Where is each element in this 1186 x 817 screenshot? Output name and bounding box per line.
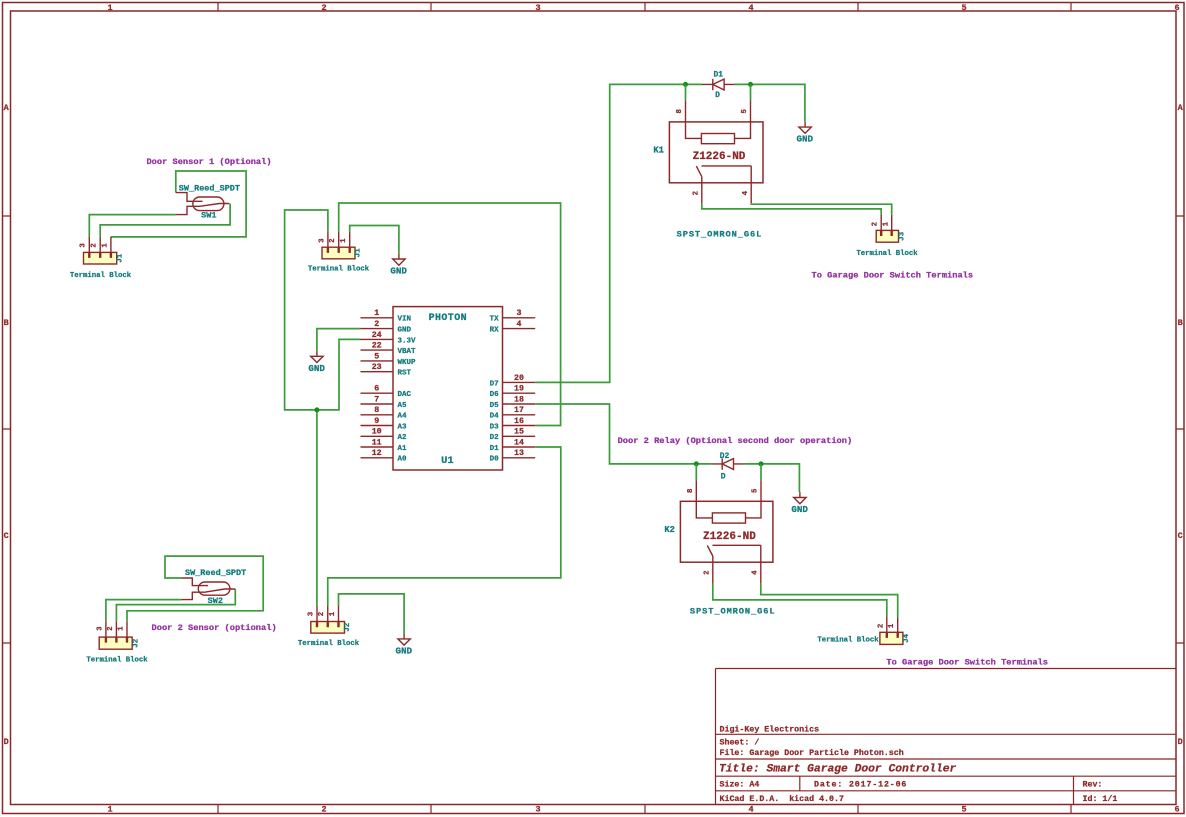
svg-text:9: 9 (374, 417, 379, 426)
svg-text:1: 1 (329, 611, 337, 616)
svg-text:D0: D0 (490, 456, 500, 464)
svg-text:23: 23 (372, 363, 382, 372)
terminal block J4 body (880, 617, 903, 644)
svg-text:1: 1 (882, 221, 890, 226)
U1 pin 23 (RST) (361, 363, 412, 378)
svg-text:3: 3 (535, 3, 540, 13)
svg-text:Date: 2017-12-06: Date: 2017-12-06 (814, 780, 907, 789)
svg-text:1: 1 (107, 805, 112, 815)
svg-text:2: 2 (872, 222, 880, 226)
svg-text:K1: K1 (653, 145, 664, 155)
svg-text:A: A (4, 103, 10, 113)
svg-text:Terminal Block: Terminal Block (817, 637, 879, 645)
svg-text:12: 12 (372, 449, 382, 458)
svg-text:4: 4 (517, 320, 522, 329)
title block outline (716, 669, 1177, 805)
svg-text:7: 7 (374, 395, 379, 404)
svg-text:SW_Reed_SPDT: SW_Reed_SPDT (185, 568, 246, 578)
wire: K2 coil rail segments (696, 464, 799, 492)
svg-text:File: Garage Door Particle Pho: File: Garage Door Particle Photon.sch (720, 748, 904, 758)
svg-text:Door 2 Sensor (optional): Door 2 Sensor (optional) (152, 623, 277, 633)
microcontroller U1 body (393, 307, 503, 470)
svg-text:Sheet: /: Sheet: / (720, 737, 760, 747)
svg-text:TX: TX (490, 316, 500, 324)
U1 pin 19 (D6) (490, 385, 536, 400)
svg-text:A5: A5 (398, 402, 408, 410)
U1 pin 22 (VBAT) (361, 342, 417, 357)
svg-text:J3: J3 (898, 231, 906, 241)
svg-text:D: D (721, 472, 726, 481)
svg-text:D2: D2 (490, 434, 500, 442)
wire: K1 pin5 drop (750, 84, 752, 100)
svg-text:SW2: SW2 (208, 596, 223, 606)
U1 pin 12 (A0) (361, 449, 408, 464)
terminal block J2 (lower center) body (311, 606, 345, 633)
svg-text:3: 3 (535, 805, 540, 815)
svg-text:5: 5 (961, 3, 966, 13)
svg-text:D1: D1 (490, 445, 500, 453)
wire: K1 pin2 to J3 pin2 (702, 203, 881, 215)
junction: D2 anode (694, 461, 699, 466)
svg-text:Door 2 Relay (Optional second: Door 2 Relay (Optional second door opera… (618, 436, 853, 446)
svg-text:11: 11 (372, 438, 382, 447)
wire: K2 pin4 to J4 pin1 (761, 584, 898, 617)
svg-text:WKUP: WKUP (398, 359, 417, 367)
svg-text:Size: A4: Size: A4 (720, 779, 760, 789)
svg-text:U1: U1 (441, 455, 454, 467)
svg-text:D: D (1178, 737, 1183, 747)
U1 pin 3 (TX) (490, 309, 536, 324)
wire: J1(center) pin2 to PHOTON D3 (339, 203, 561, 426)
svg-text:GND: GND (797, 134, 814, 145)
svg-text:3: 3 (96, 626, 104, 631)
svg-text:6: 6 (374, 385, 379, 394)
wire: U1 D5 to relay K2 coil (535, 404, 696, 464)
svg-text:KiCad E.D.A. kicad 4.0.7: KiCad E.D.A. kicad 4.0.7 (720, 794, 844, 804)
svg-text:13: 13 (514, 449, 524, 458)
svg-text:Terminal Block: Terminal Block (856, 250, 918, 258)
svg-text:SPST_OMRON_G6L: SPST_OMRON_G6L (690, 606, 776, 616)
svg-text:3.3V: 3.3V (398, 337, 417, 345)
svg-text:B: B (1178, 318, 1183, 328)
wire: K1 pin4 to J3 pin1 (751, 203, 892, 215)
svg-text:2: 2 (877, 624, 885, 628)
svg-text:D: D (4, 737, 9, 747)
wire: SW1 pin3 to J1 pin 3 (89, 215, 176, 237)
svg-text:J4: J4 (903, 633, 911, 643)
svg-text:Rev:: Rev: (1083, 780, 1103, 789)
U1 pin 16 (D3) (490, 417, 536, 432)
svg-text:1: 1 (107, 3, 112, 13)
wire: J1 pin1 drop (110, 236, 112, 238)
svg-text:3: 3 (307, 611, 315, 616)
U1 pin 14 (D1) (490, 438, 536, 453)
svg-text:8: 8 (676, 109, 684, 114)
svg-text:Digi-Key Electronics: Digi-Key Electronics (720, 724, 820, 734)
svg-text:24: 24 (372, 331, 382, 340)
svg-text:2: 2 (374, 320, 379, 329)
U1 pin 10 (A2) (361, 428, 408, 443)
svg-text:Terminal Block: Terminal Block (86, 657, 148, 665)
svg-text:1: 1 (101, 243, 109, 248)
svg-text:2: 2 (321, 3, 326, 13)
wire: J2(lower) pin1 to ground (339, 594, 405, 634)
wire: SW2 pin1 loop to J2 pin1 (127, 556, 263, 622)
svg-text:VIN: VIN (398, 316, 412, 324)
svg-text:Terminal Block: Terminal Block (298, 640, 360, 648)
junction: D1 cathode (748, 82, 753, 87)
svg-text:J1: J1 (117, 253, 125, 263)
U1 pin 24 (3.3V) (361, 331, 417, 346)
svg-text:J1: J1 (354, 248, 362, 258)
svg-text:C: C (4, 531, 9, 541)
wire: U1 D7 to relay K1 coil (535, 84, 685, 382)
svg-text:1: 1 (118, 626, 126, 631)
svg-text:3: 3 (318, 238, 326, 243)
svg-text:2: 2 (91, 243, 99, 247)
svg-text:GND: GND (398, 327, 412, 335)
svg-text:A: A (1178, 103, 1184, 113)
svg-text:2: 2 (318, 612, 326, 616)
wire: 3.3V rail down to lower J2 pin3 (316, 410, 318, 606)
svg-text:SW1: SW1 (201, 210, 216, 220)
svg-text:D7: D7 (490, 380, 499, 388)
wire: SW2 common to J2 pin2 (116, 589, 235, 622)
terminal block J1 (door sensor 1) body (84, 237, 117, 264)
svg-text:D1: D1 (713, 71, 723, 80)
svg-text:SPST_OMRON_G6L: SPST_OMRON_G6L (677, 229, 763, 239)
svg-text:D3: D3 (490, 423, 500, 431)
svg-text:5: 5 (374, 352, 379, 361)
wire: U1 D1 to lower J2 pin2 (328, 447, 561, 606)
svg-text:J2: J2 (133, 638, 141, 648)
svg-text:5: 5 (961, 805, 966, 815)
svg-text:Terminal Block: Terminal Block (70, 272, 132, 280)
svg-text:DAC: DAC (398, 391, 412, 399)
U1 pin 11 (A1) (361, 438, 408, 453)
svg-text:J2: J2 (344, 622, 352, 632)
svg-text:4: 4 (748, 805, 753, 815)
svg-text:D5: D5 (490, 402, 500, 410)
ground symbol for J1 center (390, 254, 407, 277)
svg-text:B: B (4, 318, 9, 328)
U1 pin 13 (D0) (490, 449, 536, 464)
svg-text:8: 8 (374, 406, 379, 415)
svg-text:2: 2 (329, 238, 337, 242)
diode D2 body (711, 458, 744, 469)
junction: D2 cathode (759, 461, 764, 466)
svg-text:RST: RST (398, 370, 412, 378)
svg-text:C: C (1178, 531, 1183, 541)
svg-text:A2: A2 (398, 434, 408, 442)
svg-text:2: 2 (693, 191, 701, 195)
terminal block J2 (door sensor 2) body (99, 622, 132, 650)
svg-text:22: 22 (372, 342, 382, 351)
svg-text:SW_Reed_SPDT: SW_Reed_SPDT (179, 183, 240, 193)
svg-text:4: 4 (742, 190, 750, 195)
svg-text:A4: A4 (398, 413, 408, 421)
U1 pin 7 (A5) (361, 395, 408, 410)
svg-text:Id: 1/1: Id: 1/1 (1083, 794, 1118, 804)
svg-text:5: 5 (752, 488, 760, 493)
svg-text:5: 5 (741, 109, 749, 114)
svg-text:2: 2 (704, 570, 712, 574)
svg-text:15: 15 (514, 428, 524, 437)
wire: K2 pin2 to J4 pin2 (713, 584, 887, 617)
svg-text:D: D (715, 91, 720, 100)
svg-text:19: 19 (514, 385, 524, 394)
U1 pin 4 (RX) (490, 320, 536, 335)
svg-text:VBAT: VBAT (398, 348, 417, 356)
wire: SW2 pin3 to J2 pin3 (106, 600, 181, 622)
ground symbol for K1 rail (797, 122, 814, 145)
svg-text:4: 4 (752, 570, 760, 575)
U1 pin 5 (WKUP) (361, 352, 417, 367)
svg-text:1: 1 (340, 238, 348, 243)
svg-text:6: 6 (1174, 3, 1179, 13)
svg-text:Terminal Block: Terminal Block (308, 266, 370, 274)
svg-text:2: 2 (321, 805, 326, 815)
svg-text:PHOTON: PHOTON (429, 313, 467, 324)
svg-text:8: 8 (687, 488, 695, 493)
border column ticks (top edge) (218, 3, 1071, 12)
U1 pin 17 (D4) (490, 406, 536, 421)
wire: K1 coil rail segments (686, 84, 805, 121)
svg-text:1: 1 (888, 623, 896, 628)
svg-text:17: 17 (514, 406, 524, 415)
svg-text:3: 3 (80, 243, 88, 248)
diode D1 body (702, 79, 735, 90)
svg-text:A3: A3 (398, 423, 408, 431)
relay K1 body (669, 101, 763, 204)
wire: J1(center) pin3 to 3.3V rail (285, 210, 361, 410)
wire: K2 pin5 drop (760, 464, 762, 480)
svg-text:RX: RX (490, 327, 500, 335)
border row ticks (left edge) (3, 216, 11, 643)
ground symbol for lower J2 (396, 634, 413, 657)
wire: SW1 common to J1 pin 2 (100, 204, 230, 237)
wire: J1(center) pin1 to ground (350, 226, 399, 254)
svg-text:To Garage Door Switch Terminal: To Garage Door Switch Terminals (811, 270, 973, 280)
terminal block J1 (center) body (322, 232, 355, 259)
svg-text:6: 6 (1174, 805, 1179, 815)
svg-text:Title: Smart Garage Door Contr: Title: Smart Garage Door Controller (719, 764, 956, 776)
svg-text:D6: D6 (490, 391, 500, 399)
svg-text:Z1226-ND: Z1226-ND (703, 531, 756, 543)
svg-text:16: 16 (514, 417, 524, 426)
U1 pin 6 (DAC) (361, 385, 412, 400)
svg-text:To Garage Door Switch Terminal: To Garage Door Switch Terminals (886, 657, 1048, 667)
ground symbol for K2 rail (791, 492, 808, 515)
U1 pin 20 (D7) (490, 374, 536, 389)
svg-text:3: 3 (517, 309, 522, 318)
wire: SW1 pin1 loop to J1 pin 1 (111, 171, 246, 237)
border column ticks (bottom edge) (218, 805, 1071, 814)
terminal block J3 body (876, 215, 898, 242)
svg-text:18: 18 (514, 395, 524, 404)
svg-text:A1: A1 (398, 445, 408, 453)
U1 pin 2 (GND) (361, 320, 412, 335)
U1 pin 8 (A4) (361, 406, 408, 421)
junction: D1 anode (683, 82, 688, 87)
reed switch SW2 body (181, 578, 235, 600)
svg-text:Door Sensor 1 (Optional): Door Sensor 1 (Optional) (146, 157, 271, 167)
svg-text:GND: GND (396, 645, 413, 656)
wire: K1 pin8 drop (685, 84, 687, 100)
U1 pin 18 (D5) (490, 395, 536, 410)
svg-text:D4: D4 (490, 413, 500, 421)
svg-text:K2: K2 (664, 525, 675, 535)
wire: U1 GND pin to ground (317, 329, 361, 351)
relay K2 body (680, 480, 773, 584)
reed switch SW1 body (176, 193, 230, 215)
wire: K2 pin8 drop (695, 464, 697, 480)
svg-text:GND: GND (308, 363, 325, 374)
svg-text:10: 10 (372, 428, 382, 437)
svg-text:14: 14 (514, 438, 524, 447)
U1 pin 1 (VIN) (361, 309, 412, 324)
svg-text:GND: GND (791, 504, 808, 515)
border row ticks (right edge) (1176, 216, 1184, 643)
svg-text:2: 2 (107, 626, 115, 630)
U1 pin 15 (D2) (490, 428, 536, 443)
svg-text:20: 20 (514, 374, 524, 383)
svg-text:GND: GND (390, 266, 407, 277)
ground symbol for U1 (308, 351, 325, 374)
svg-text:1: 1 (374, 309, 379, 318)
junction: 3.3V rail (314, 407, 319, 412)
svg-text:Z1226-ND: Z1226-ND (693, 151, 746, 163)
svg-text:4: 4 (748, 3, 753, 13)
svg-text:D2: D2 (720, 452, 730, 461)
U1 pin 9 (A3) (361, 417, 408, 432)
svg-text:A0: A0 (398, 456, 408, 464)
